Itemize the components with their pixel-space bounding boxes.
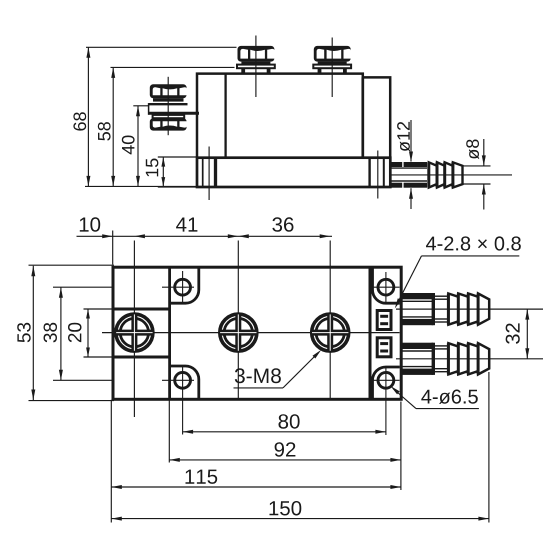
corner tab bottom-right bbox=[373, 367, 400, 399]
side view: base hole right edge a bbox=[368, 158, 370, 187]
mounting hole bottom-right (dia 6.5) bbox=[378, 372, 394, 388]
centerline bolt 2 bbox=[331, 38, 333, 98]
plan view: mounting plate bbox=[113, 267, 401, 399]
side view: body inner line left bbox=[224, 74, 226, 158]
dimension 115 bbox=[111, 470, 401, 489]
label 41 bbox=[176, 218, 197, 232]
dimension 15 bbox=[146, 157, 197, 187]
mounting hole top-left (dia 6.5) bbox=[175, 279, 191, 295]
dimension 53 bbox=[17, 265, 114, 400]
fast-on tab block lower (2x 2.8x0.8) bbox=[377, 338, 391, 357]
side view: base hole left edge a bbox=[202, 158, 204, 187]
hole crosshairs bbox=[162, 271, 400, 435]
dimension 80 bbox=[183, 414, 386, 434]
extension line plate left top bbox=[112, 231, 114, 265]
extension lines below plate bbox=[111, 372, 489, 523]
label 4-2.8x0.8 bbox=[395, 236, 521, 308]
side view: module body bbox=[197, 74, 390, 158]
side view: hose fitting barbs bbox=[429, 162, 463, 187]
terminal screw 3 (M8) bbox=[311, 313, 349, 351]
side terminal stud assembly bbox=[149, 84, 199, 118]
dimension dia12 bbox=[397, 120, 413, 209]
terminal screw 2 (M8) bbox=[219, 313, 257, 351]
label 10 bbox=[80, 217, 100, 232]
mounting hole bottom-left (dia 6.5) bbox=[175, 372, 191, 388]
dimension 32 bbox=[506, 309, 530, 359]
dimension 58 bbox=[98, 67, 235, 186]
bolt M6 terminal 2 (top right) bbox=[313, 46, 351, 73]
side view: base hole right centerline bbox=[377, 151, 379, 199]
centerline stud bbox=[167, 77, 169, 135]
label 36 bbox=[272, 217, 293, 232]
side view: base hole right edge b bbox=[383, 158, 385, 187]
dimension 38 bbox=[44, 287, 113, 380]
dimension dia8 bbox=[464, 139, 491, 210]
side view: fitting centerline bbox=[391, 174, 513, 176]
plan: left section divider bbox=[168, 266, 171, 400]
baseline extension bbox=[85, 185, 197, 187]
side view: hose fitting collar bbox=[391, 162, 427, 188]
corner tab top-right bbox=[373, 268, 400, 304]
dimension 40 bbox=[122, 106, 149, 187]
label 3-M8 bbox=[234, 350, 322, 388]
top dimension chain line bbox=[77, 235, 333, 237]
dimension 150 bbox=[111, 501, 489, 521]
plan: terminal1 block top edge bbox=[113, 308, 169, 311]
fast-on tab block upper (2x 2.8x0.8) bbox=[377, 311, 391, 330]
corner tab bottom-left bbox=[171, 366, 199, 399]
side view: base hole left edge b bbox=[214, 158, 217, 187]
dimension 68 bbox=[73, 47, 236, 186]
dimension 20 bbox=[68, 309, 113, 357]
side terminal stud lower nut bbox=[150, 118, 187, 130]
plan: right section divider bbox=[369, 266, 372, 400]
mounting hole top-right (dia 6.5) bbox=[378, 279, 394, 295]
side view: base plate bbox=[197, 158, 390, 187]
label 4-dia6.5 bbox=[391, 386, 479, 409]
plan: terminal1 block bottom edge bbox=[113, 356, 169, 359]
terminal centerlines bbox=[102, 241, 400, 418]
terminal screw 1 (M8) bbox=[115, 313, 153, 351]
side view: base hole left centerline bbox=[208, 147, 210, 201]
centerline bolt 1 bbox=[255, 36, 257, 98]
plan: hose fitting upper bbox=[396, 293, 543, 325]
dimension 92 bbox=[169, 442, 401, 462]
plan: hose fitting lower bbox=[396, 343, 543, 375]
corner tab top-left bbox=[171, 268, 199, 304]
bolt M6 terminal 1 (top left) bbox=[237, 46, 275, 73]
side view: body inner line right bbox=[361, 77, 364, 157]
